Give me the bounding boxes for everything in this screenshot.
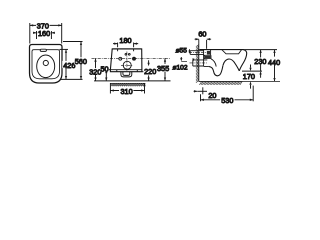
body inner rim (32, 50, 60, 79)
svg-text:170: 170 (243, 72, 255, 81)
small holes center (125, 53, 127, 55)
seat top line (199, 49, 243, 51)
svg-text:180: 180 (119, 36, 131, 45)
svg-text:ø55: ø55 (176, 47, 188, 54)
svg-text:530: 530 (221, 96, 233, 105)
dim 355 line (164, 58, 166, 81)
dim 160 ext ticks (37, 31, 52, 39)
dim 170 text (243, 73, 257, 79)
boss lower inner detail (205, 56, 211, 58)
dim 560 line (80, 42, 82, 80)
step ticks (117, 70, 138, 72)
wall line (198, 40, 200, 82)
toilet front profile (239, 50, 246, 71)
svg-text:50: 50 (100, 64, 108, 73)
dim 426 line (65, 49, 67, 79)
seat top ext to dims (244, 49, 278, 51)
svg-text:310: 310 (121, 87, 133, 96)
dim 310 text (119, 87, 133, 94)
dim 20 arrow (194, 90, 198, 92)
dim 180 text (119, 37, 133, 43)
outlet centerline (190, 62, 208, 64)
outlet vertical centerline (126, 52, 128, 71)
dim 320 line (95, 58, 97, 81)
ø102 leader arrow (180, 57, 182, 59)
dim 440 text (267, 57, 281, 66)
fixing hole left (119, 57, 122, 60)
dim 20 line (197, 90, 207, 92)
svg-text:230: 230 (254, 57, 266, 66)
ext line 560 top (63, 41, 83, 43)
wall hatching (196, 45, 199, 83)
dim 530 ext left (200, 94, 202, 101)
inlet boss lower (204, 55, 211, 58)
dim 370 ext lines (30, 23, 62, 44)
svg-text:355: 355 (157, 64, 169, 73)
ext line 426 top (60, 48, 69, 50)
outlet boss (204, 55, 209, 66)
dim 530 text (220, 96, 234, 103)
dim 530 ext right (252, 86, 254, 102)
dim 530 line (201, 99, 254, 101)
ext line bowl underside (242, 70, 262, 72)
dim 50 text (100, 65, 109, 71)
small arrow near pipe cap (192, 59, 194, 62)
inlet boss (204, 50, 211, 56)
outlet circle (123, 61, 131, 69)
dim 60 arrows (195, 38, 211, 40)
fixing hole right (133, 57, 136, 60)
svg-text:440: 440 (268, 58, 280, 67)
inlet centerline (189, 52, 207, 54)
holes centerline (dash-dot) (92, 57, 171, 59)
trap upper wall (211, 59, 216, 67)
inlet boss inner detail (207, 51, 210, 55)
bottom ext line (94, 80, 171, 82)
dim 20 tick (202, 87, 204, 94)
trap S-curve (209, 65, 223, 75)
dim 180 ext ticks (118, 43, 134, 52)
seat oval (37, 55, 55, 78)
outlet circle h-centerline (121, 64, 133, 66)
dim 370 line (30, 24, 62, 26)
dim 50 line (105, 70, 107, 81)
floor ext line to dims (243, 80, 281, 82)
dim 220 line (148, 60, 150, 81)
dim 220 text (143, 67, 157, 75)
dim 426 text (62, 61, 76, 68)
trap outer U (121, 72, 132, 77)
dim 440 line (274, 50, 276, 82)
svg-text:560: 560 (75, 57, 87, 66)
wall hatched line (110, 82, 144, 84)
body outer (30, 45, 63, 84)
svg-text:426: 426 (63, 61, 75, 70)
seat wedge under top (222, 50, 242, 54)
ø55 leader arrow (189, 49, 191, 50)
body top edge (112, 48, 142, 50)
outlet pipe stub (ø102) (193, 60, 204, 66)
dim 230 text (254, 57, 268, 64)
ext line bottom (426/560) (61, 78, 83, 80)
ø102 leader line (181, 60, 187, 62)
inlet pipe stub (ø55) (190, 51, 203, 55)
dim 310 ext ticks (110, 83, 144, 94)
dim 160 text (37, 30, 51, 36)
bowl sump and weir (223, 59, 239, 71)
dim 310 line (110, 90, 144, 92)
ext from body bottom right (142, 71, 153, 73)
body outline (110, 49, 141, 72)
dim 160 arrows (33, 32, 55, 34)
dim 230 line (260, 50, 262, 78)
svg-text:60: 60 (198, 29, 206, 38)
floor line (199, 80, 243, 82)
dim 320 text (89, 68, 103, 75)
svg-text:160: 160 (38, 29, 50, 38)
dim 370 text (36, 22, 50, 28)
trap inner U (123, 72, 130, 76)
dim 560 text (74, 57, 87, 64)
dim 160 line (37, 32, 52, 34)
svg-text:20: 20 (208, 91, 216, 100)
dim 50 ext from shelf (105, 69, 111, 71)
svg-text:220: 220 (144, 67, 156, 76)
dim 60 ext right (206, 40, 208, 49)
dim 355 text (157, 64, 170, 72)
svg-text:ø102: ø102 (172, 64, 187, 71)
floor hatching (199, 82, 242, 85)
dim 170 arrows (outside) (250, 65, 252, 89)
flush hole circle (43, 60, 48, 65)
inner shelf line (110, 69, 141, 71)
dim 180 line (113, 43, 138, 45)
rim top slot (40, 49, 46, 51)
